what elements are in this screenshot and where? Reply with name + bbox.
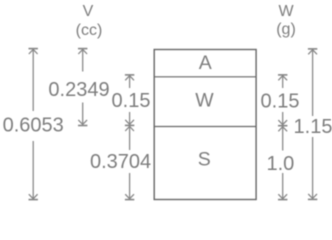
- dimension 0.2349: line: [78, 49, 87, 126]
- svg-text:0.15: 0.15: [261, 91, 300, 113]
- svg-text:A: A: [199, 52, 212, 74]
- header V (cc): [76, 3, 103, 39]
- svg-text:0.3704: 0.3704: [90, 151, 151, 173]
- svg-text:(cc): (cc): [76, 22, 103, 39]
- svg-text:1.0: 1.0: [266, 153, 294, 175]
- dimension 0.15 right: line: [278, 75, 287, 126]
- svg-text:W: W: [195, 90, 214, 112]
- svg-text:0.2349: 0.2349: [48, 79, 109, 101]
- header W (g): [276, 3, 296, 38]
- dimension 0.6053: line: [29, 49, 38, 200]
- svg-text:S: S: [198, 149, 211, 171]
- svg-text:0.15: 0.15: [112, 90, 151, 112]
- svg-text:0.6053: 0.6053: [3, 115, 64, 137]
- svg-text:1.15: 1.15: [294, 116, 332, 138]
- divider line A/W: [154, 76, 256, 78]
- box outline: [154, 50, 256, 200]
- svg-text:(g): (g): [276, 21, 296, 38]
- svg-text:W: W: [278, 3, 294, 20]
- divider line W/S: [154, 126, 256, 128]
- dimension 0.3704: line: [125, 126, 134, 199]
- dimension 1.0: line: [278, 127, 287, 200]
- svg-text:V: V: [83, 3, 94, 20]
- dimension 0.15 left: line: [125, 75, 134, 126]
- dimension 1.15: line: [308, 49, 317, 200]
